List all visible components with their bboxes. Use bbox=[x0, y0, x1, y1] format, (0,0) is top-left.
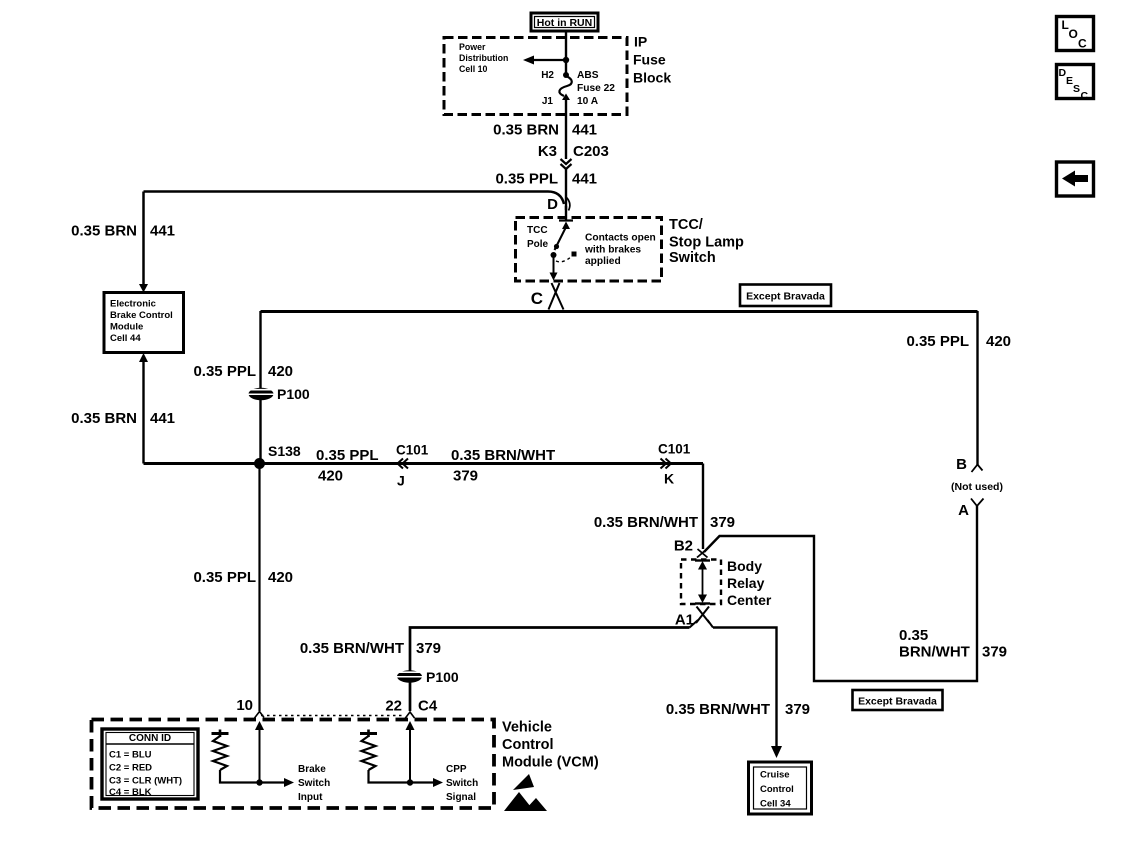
svg-text:TCC: TCC bbox=[527, 225, 548, 236]
svg-text:Hot in RUN: Hot in RUN bbox=[537, 17, 592, 29]
svg-text:TCC/: TCC/ bbox=[669, 217, 703, 233]
svg-text:10: 10 bbox=[236, 697, 253, 714]
relay element arrows inside Body Relay Center bbox=[695, 561, 710, 604]
svg-text:10 A: 10 A bbox=[577, 96, 599, 107]
svg-text:CPP: CPP bbox=[446, 764, 467, 775]
back arrow button bbox=[1057, 162, 1094, 196]
svg-text:379: 379 bbox=[416, 640, 441, 657]
main middle horizontal wire S138 to K bbox=[260, 462, 704, 465]
svg-text:C4: C4 bbox=[418, 698, 438, 715]
right vertical wire (PPL 420) down to B bbox=[976, 311, 978, 465]
CPP pull-up resistor bbox=[360, 730, 443, 788]
svg-text:379: 379 bbox=[982, 644, 1007, 661]
svg-text:Control: Control bbox=[760, 784, 794, 795]
dotted connector face line bbox=[261, 715, 404, 717]
svg-text:0.35 BRN/WHT: 0.35 BRN/WHT bbox=[666, 701, 770, 718]
svg-text:IP: IP bbox=[634, 34, 647, 50]
svg-text:Cruise: Cruise bbox=[760, 770, 790, 781]
label 0.35 PPL 420 (lower) bbox=[193, 569, 293, 586]
svg-text:Brake: Brake bbox=[298, 764, 326, 775]
svg-text:J1: J1 bbox=[542, 96, 554, 107]
wire to Power Distribution with arrow bbox=[523, 56, 566, 65]
svg-text:0.35 PPL: 0.35 PPL bbox=[316, 447, 379, 464]
label 0.35 BRN 441 bbox=[493, 122, 597, 139]
IP Fuse Block dashed box bbox=[444, 34, 671, 115]
svg-text:0.35 BRN: 0.35 BRN bbox=[71, 410, 137, 427]
wire top branch to EBCM bbox=[139, 192, 148, 293]
svg-text:379: 379 bbox=[785, 701, 810, 718]
svg-text:Cell 10: Cell 10 bbox=[459, 64, 487, 74]
svg-text:379: 379 bbox=[453, 468, 478, 485]
svg-text:441: 441 bbox=[150, 410, 175, 427]
label 0.35 BRN 441 (lower left) bbox=[71, 410, 175, 427]
svg-text:Fuse 22: Fuse 22 bbox=[577, 83, 615, 94]
svg-text:Switch: Switch bbox=[446, 778, 478, 789]
svg-text:441: 441 bbox=[572, 171, 597, 188]
label 0.35 PPL 420 stacked bbox=[316, 447, 379, 485]
svg-text:C2 = RED: C2 = RED bbox=[109, 762, 152, 773]
svg-text:22: 22 bbox=[385, 698, 402, 715]
svg-text:Electronic: Electronic bbox=[110, 299, 156, 310]
svg-text:S138: S138 bbox=[268, 443, 301, 459]
svg-text:A: A bbox=[958, 502, 969, 519]
pin 10 label bbox=[236, 697, 264, 718]
svg-text:C101: C101 bbox=[658, 442, 691, 457]
brake switch pull-up resistor bbox=[212, 730, 295, 788]
svg-text:Block: Block bbox=[633, 70, 671, 86]
svg-text:ABS: ABS bbox=[577, 70, 599, 81]
svg-text:441: 441 bbox=[572, 122, 597, 139]
LOC button bbox=[1057, 17, 1094, 51]
wire junction to fuse bbox=[565, 60, 567, 74]
svg-text:Switch: Switch bbox=[669, 250, 716, 266]
Body Relay Center dashed box bbox=[681, 558, 772, 608]
splice S138 bbox=[254, 443, 301, 469]
CONN ID table bbox=[102, 729, 198, 799]
wire A down and loop to B2 bbox=[704, 506, 977, 681]
svg-text:0.35 BRN/WHT: 0.35 BRN/WHT bbox=[300, 640, 404, 657]
svg-text:Brake Control: Brake Control bbox=[110, 310, 173, 321]
svg-text:S: S bbox=[1073, 83, 1080, 95]
svg-text:C: C bbox=[1081, 90, 1089, 102]
svg-text:Cell 44: Cell 44 bbox=[110, 333, 141, 344]
svg-text:C1 = BLU: C1 = BLU bbox=[109, 750, 152, 761]
svg-text:P100: P100 bbox=[426, 669, 459, 685]
svg-text:Cell 34: Cell 34 bbox=[760, 799, 791, 810]
wire C203 to D bbox=[565, 169, 567, 210]
svg-text:with brakes: with brakes bbox=[584, 245, 641, 256]
Brake Switch Input label bbox=[298, 764, 330, 803]
svg-text:CONN ID: CONN ID bbox=[129, 733, 171, 744]
horizontal wire from A1 right to cruise drop bbox=[713, 628, 777, 749]
left vertical wire C to S138 bbox=[259, 311, 261, 464]
wire fuse to C203 bbox=[565, 100, 567, 159]
svg-text:C: C bbox=[531, 289, 543, 308]
Electronic Brake Control Module box bbox=[104, 293, 184, 353]
grommet P100 (left) bbox=[246, 386, 310, 402]
svg-text:O: O bbox=[1069, 27, 1078, 41]
svg-text:Fuse: Fuse bbox=[633, 52, 666, 68]
wire K down to B2 bbox=[702, 464, 704, 550]
svg-text:Vehicle: Vehicle bbox=[502, 720, 552, 736]
wire from Hot in RUN to fuse block bbox=[565, 31, 567, 60]
svg-text:Power: Power bbox=[459, 42, 486, 52]
connector C101 terminal K bbox=[658, 442, 691, 487]
arrow into Cruise Control bbox=[771, 746, 782, 758]
svg-text:Except Bravada: Except Bravada bbox=[746, 291, 825, 303]
svg-text:Center: Center bbox=[727, 592, 772, 608]
Cruise Control Cell 34 box bbox=[749, 762, 812, 814]
svg-text:379: 379 bbox=[710, 514, 735, 531]
terminal A bbox=[958, 499, 983, 520]
label 0.35 PPL 420 (right) bbox=[906, 333, 1011, 350]
svg-text:Contacts open: Contacts open bbox=[585, 233, 656, 244]
svg-text:P100: P100 bbox=[277, 386, 310, 402]
terminal B (not used) bbox=[956, 456, 982, 473]
label 0.35 PPL 420 (left) bbox=[193, 363, 293, 380]
Except Bravada tag (bottom) bbox=[853, 690, 943, 710]
TCC switch contacts bbox=[550, 221, 577, 281]
Contacts open with brakes applied note bbox=[584, 233, 656, 268]
label 0.35 BRN/WHT 379 (at B2) bbox=[594, 514, 735, 531]
svg-text:(Not used): (Not used) bbox=[951, 481, 1003, 493]
svg-text:Module: Module bbox=[110, 322, 143, 333]
svg-text:0.35 BRN/WHT: 0.35 BRN/WHT bbox=[594, 514, 698, 531]
svg-text:Switch: Switch bbox=[298, 778, 330, 789]
terminal C of TCC switch bbox=[531, 283, 564, 310]
label 0.35 BRN/WHT 379 (bottom right) bbox=[899, 627, 1007, 661]
label 0.35 PPL 441 bbox=[495, 171, 597, 188]
Power Distribution Cell 10 reference bbox=[459, 42, 508, 74]
svg-text:B2: B2 bbox=[674, 538, 693, 555]
svg-text:C4 = BLK: C4 = BLK bbox=[109, 787, 152, 798]
CPP Switch Signal label bbox=[446, 764, 478, 803]
label 0.35 BRN/WHT 379 stacked bbox=[451, 447, 555, 485]
wire A1 legs to horizontal run bbox=[690, 620, 714, 628]
terminal A1 of Body Relay Center bbox=[675, 607, 710, 629]
node junction at fuse top bbox=[563, 57, 569, 63]
connector C101 terminal J bbox=[396, 443, 429, 489]
svg-text:D: D bbox=[547, 196, 558, 213]
svg-text:Relay: Relay bbox=[727, 575, 765, 591]
svg-text:Except Bravada: Except Bravada bbox=[858, 696, 937, 708]
svg-text:0.35 BRN/WHT: 0.35 BRN/WHT bbox=[451, 447, 555, 464]
svg-text:E: E bbox=[1066, 75, 1073, 87]
svg-text:0.35 PPL: 0.35 PPL bbox=[495, 171, 558, 188]
Hot in RUN label box bbox=[531, 13, 598, 31]
svg-text:Module (VCM): Module (VCM) bbox=[502, 755, 599, 771]
wire D into TCC box bbox=[565, 206, 567, 220]
svg-text:C3 = CLR (WHT): C3 = CLR (WHT) bbox=[109, 775, 182, 786]
TCC/Stop Lamp Switch dashed box bbox=[516, 217, 745, 281]
svg-text:Distribution: Distribution bbox=[459, 53, 508, 63]
main horizontal wire at node C bbox=[261, 310, 978, 313]
svg-text:K: K bbox=[664, 471, 674, 487]
svg-text:420: 420 bbox=[986, 333, 1011, 350]
Vehicle Control Module dashed box bbox=[92, 720, 599, 809]
svg-text:H2: H2 bbox=[541, 70, 554, 81]
svg-text:Control: Control bbox=[502, 737, 554, 753]
pin 22 internal wire with arrow bbox=[406, 721, 415, 786]
connector C203 terminal K3 bbox=[538, 143, 609, 169]
svg-text:C203: C203 bbox=[573, 143, 609, 160]
pin 22 / C4 labels bbox=[385, 698, 438, 719]
svg-text:420: 420 bbox=[268, 569, 293, 586]
svg-text:441: 441 bbox=[150, 223, 175, 240]
svg-text:0.35 PPL: 0.35 PPL bbox=[193, 569, 256, 586]
svg-text:420: 420 bbox=[268, 363, 293, 380]
svg-text:Input: Input bbox=[298, 792, 323, 803]
fuse F22 (ABS Fuse 22 10 A) bbox=[541, 70, 615, 107]
svg-text:applied: applied bbox=[585, 256, 621, 267]
ESD symbol bbox=[504, 774, 547, 811]
svg-text:0.35: 0.35 bbox=[899, 627, 928, 644]
svg-text:0.35 BRN: 0.35 BRN bbox=[71, 223, 137, 240]
svg-text:C101: C101 bbox=[396, 443, 429, 458]
wire S138 down to VCM pin 10 bbox=[258, 464, 260, 712]
svg-text:0.35 BRN: 0.35 BRN bbox=[493, 122, 559, 139]
svg-text:BRN/WHT: BRN/WHT bbox=[899, 644, 970, 661]
TCC Pole label bbox=[527, 225, 549, 250]
pin 10 internal wire with arrow bbox=[255, 721, 264, 786]
svg-text:420: 420 bbox=[318, 468, 343, 485]
svg-text:C: C bbox=[1078, 37, 1087, 51]
label 0.35 BRN/WHT 379 (at P100 lower) bbox=[300, 640, 441, 657]
svg-text:Body: Body bbox=[727, 558, 762, 574]
svg-text:K3: K3 bbox=[538, 143, 557, 160]
terminal D of TCC switch bbox=[547, 196, 570, 213]
svg-text:Stop Lamp: Stop Lamp bbox=[669, 235, 744, 251]
wire S138 to EBCM bbox=[139, 353, 260, 464]
svg-text:Signal: Signal bbox=[446, 792, 476, 803]
svg-text:0.35 PPL: 0.35 PPL bbox=[906, 333, 969, 350]
terminal B2 of Body Relay Center bbox=[674, 538, 708, 558]
Except Bravada tag (top) bbox=[740, 285, 831, 307]
label 0.35 BRN 441 (upper left) bbox=[71, 223, 175, 240]
svg-text:0.35 PPL: 0.35 PPL bbox=[193, 363, 256, 380]
svg-text:J: J bbox=[397, 473, 405, 489]
DESC button bbox=[1057, 65, 1094, 103]
svg-text:Pole: Pole bbox=[527, 239, 549, 250]
svg-text:B: B bbox=[956, 456, 967, 473]
grommet P100 (lower) bbox=[395, 669, 459, 685]
wire branch at D to left bbox=[144, 192, 565, 205]
horizontal wire from A1 left to VCM pin 22 bbox=[410, 628, 690, 712]
label 0.35 BRN/WHT 379 (cruise) bbox=[666, 701, 810, 718]
